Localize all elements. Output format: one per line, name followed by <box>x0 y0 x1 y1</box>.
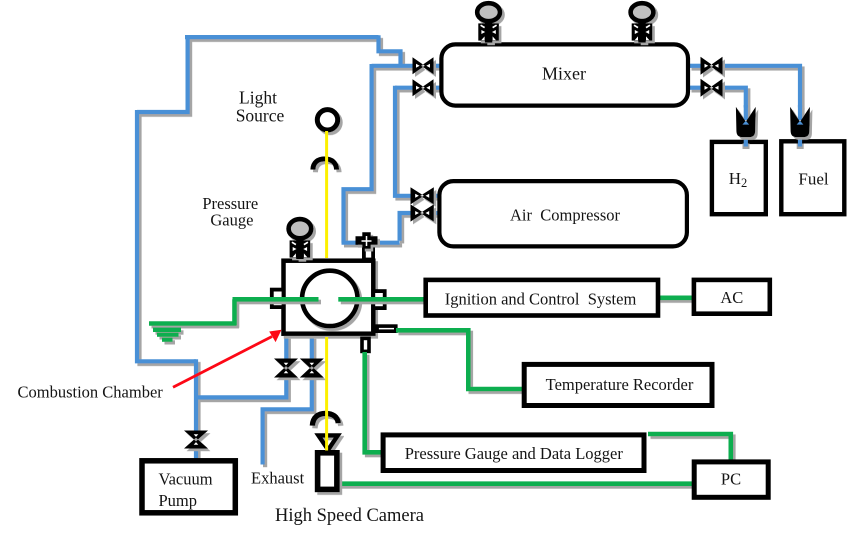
svg-text:Pressure Gauge and Data Logger: Pressure Gauge and Data Logger <box>405 444 624 463</box>
PIPES-BLUE <box>137 35 800 464</box>
wire green riser to electrode <box>232 299 237 325</box>
wire blue mixer upper-left valve line <box>372 64 414 68</box>
svg-text:Vacuum: Vacuum <box>159 470 213 489</box>
box AC <box>694 280 770 314</box>
GREEN WIRES <box>149 298 731 484</box>
svg-text:Light: Light <box>239 88 277 108</box>
pipe stub into H2 tank <box>743 136 750 149</box>
light source circle <box>317 110 337 130</box>
valve vacuum pump (hourglass) <box>184 431 208 449</box>
wire green right electrode to ignition box <box>338 297 425 302</box>
ground symbol <box>153 328 181 342</box>
svg-text:Pump: Pump <box>159 491 198 510</box>
box pressure gauge and data logger <box>383 435 644 471</box>
valve AC lower <box>411 204 434 221</box>
wire blue stub mixer right upper <box>689 64 702 68</box>
wire blue mixer to h2 tank <box>722 88 746 108</box>
light beam lower <box>325 337 328 451</box>
gauge on chamber <box>289 219 312 259</box>
valve mixer left lower <box>413 79 434 96</box>
wire blue mixer lower-left valve line <box>395 86 414 90</box>
cross fitting on chamber top <box>356 232 378 248</box>
tank Fuel <box>781 141 844 214</box>
chamber right flange <box>373 291 384 308</box>
mixer vessel <box>441 44 688 105</box>
chamber top port <box>364 249 373 260</box>
chamber right lower port <box>377 326 396 331</box>
svg-text:Mixer: Mixer <box>542 64 586 84</box>
wire blue chamber bottom to valve1 <box>284 336 288 360</box>
box ignition and control system <box>426 280 658 316</box>
tank H2 <box>712 142 766 214</box>
box temperature recorder <box>524 364 712 405</box>
wire blue stub mixer left upper <box>433 64 442 68</box>
camera funnel <box>318 435 337 449</box>
air compressor vessel <box>439 181 687 246</box>
wire blue vacuum valve to pump <box>194 448 198 460</box>
svg-text:Source: Source <box>236 106 285 126</box>
light source lens arc <box>313 159 337 170</box>
wire blue vertical mixer to AC <box>395 86 413 196</box>
wire green camera to PC <box>338 481 693 486</box>
wire blue valve2 to exhaust <box>263 377 312 465</box>
wire blue loop down from mixer line <box>344 64 372 243</box>
wire blue chamber top feed horizontal <box>342 241 400 245</box>
svg-text:Combustion Chamber: Combustion Chamber <box>18 383 164 402</box>
svg-text:PC: PC <box>721 470 741 489</box>
gauge on mixer port 2 <box>631 3 654 42</box>
wire green chamber to temperature recorder <box>396 330 523 389</box>
valve mixer left upper <box>413 57 434 74</box>
box vacuum pump <box>142 461 235 513</box>
wire green left electrode <box>233 297 319 302</box>
svg-text:Temperature Recorder: Temperature Recorder <box>546 375 694 394</box>
wire green ignition to AC box <box>658 295 693 300</box>
chamber left flange <box>272 290 284 308</box>
svg-text:Ignition and Control System: Ignition and Control System <box>445 290 637 309</box>
svg-text:AC: AC <box>720 288 743 307</box>
wire blue to vacuum valve <box>194 359 198 431</box>
chamber body <box>284 261 374 334</box>
svg-text:High Speed Camera: High Speed Camera <box>275 506 424 526</box>
svg-text:Gauge: Gauge <box>210 211 253 230</box>
wire blue step to mixer inlet <box>379 35 401 66</box>
pipe stub into Fuel tank <box>797 136 804 149</box>
wire blue chamber bottom to valve2 <box>310 336 314 360</box>
valve mixer right upper <box>701 57 723 75</box>
wire blue top long horizontal <box>185 35 379 39</box>
svg-text:Air Compressor: Air Compressor <box>510 206 620 225</box>
wire green ground lead <box>149 321 237 326</box>
wire blue left step down <box>137 35 188 112</box>
valve chamber outlet2 (hourglass) <box>300 359 324 378</box>
svg-text:Fuel: Fuel <box>798 169 829 188</box>
regulator on H2 tank <box>736 105 756 137</box>
valve mixer right lower <box>701 79 723 97</box>
valve AC upper <box>411 187 434 204</box>
camera body <box>318 453 337 490</box>
wire green chamber bottom to data logger <box>365 352 382 452</box>
pointer arrow to chamber <box>173 330 282 388</box>
gauge on mixer port 1 <box>477 3 500 42</box>
wire blue stub AC upper <box>432 194 440 198</box>
svg-text:Exhaust: Exhaust <box>251 469 305 488</box>
box PC <box>694 462 768 497</box>
wire blue chamber outlet1 to pump line <box>194 377 286 398</box>
wire blue from AC lower valve down <box>400 213 413 241</box>
wire blue mixer to fuel tank <box>722 66 801 108</box>
light beam upper <box>325 131 328 258</box>
wire blue stub mixer left lower <box>433 86 442 90</box>
camera lens arc <box>312 413 338 425</box>
valve chamber outlet1 (hourglass) <box>274 359 298 378</box>
wire green data logger to PC <box>648 434 731 461</box>
regulator on Fuel tank <box>790 105 810 137</box>
wire blue stub AC lower <box>432 211 440 215</box>
chamber window <box>302 271 357 326</box>
chamber bottom port <box>362 338 369 351</box>
wire blue left tall vertical <box>137 110 196 361</box>
wire blue stub mixer right lower <box>689 86 702 90</box>
